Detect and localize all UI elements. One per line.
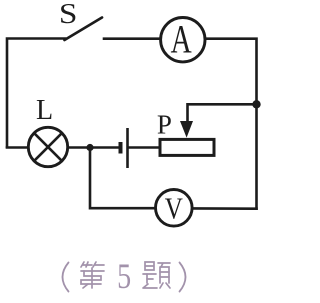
caption char di (第) strokes xyxy=(81,262,104,288)
lamp X cross xyxy=(34,133,62,161)
wire switch right segment to ammeter xyxy=(104,37,160,40)
wire battery to rheostat xyxy=(129,146,158,149)
node junction right xyxy=(252,100,260,108)
svg-text:5: 5 xyxy=(117,256,131,296)
svg-text:S: S xyxy=(59,0,78,29)
battery cell short thick plate (negative) xyxy=(119,142,123,154)
voltmeter U2 circle xyxy=(156,190,193,227)
rheostat P box xyxy=(160,139,214,155)
battery cell long thin plate (positive) xyxy=(126,128,129,168)
caption char ti (题) strokes xyxy=(143,262,170,288)
switch S lever xyxy=(65,18,103,41)
wire lamp to junction xyxy=(69,146,90,149)
wire lamp-junction to battery xyxy=(90,146,119,149)
svg-text:L: L xyxy=(36,95,53,126)
svg-text:P: P xyxy=(157,110,172,140)
node junction lamp-battery xyxy=(86,144,93,151)
wire voltmeter to bottom-right corner xyxy=(194,207,257,210)
wire ammeter to top-right corner and down right side xyxy=(206,39,257,209)
wire wiper branch from right junction xyxy=(188,104,257,126)
wire voltmeter branch left and bottom xyxy=(90,148,154,209)
wire left wire to lamp xyxy=(7,146,27,149)
caption close paren xyxy=(180,263,186,292)
caption open paren xyxy=(63,263,69,292)
wire top-left horizontal xyxy=(7,39,65,148)
lamp L circle xyxy=(28,127,67,166)
svg-text:V: V xyxy=(165,192,184,226)
ammeter U1 circle xyxy=(161,18,205,62)
caption (第 5 题) xyxy=(63,263,186,292)
rheostat wiper arrow xyxy=(180,121,193,138)
svg-text:A: A xyxy=(171,17,193,62)
